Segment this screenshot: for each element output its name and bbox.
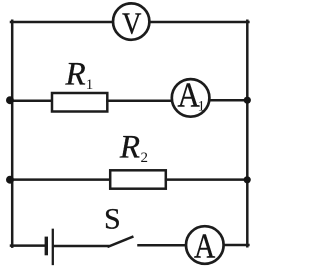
svg-text:R: R: [65, 57, 86, 93]
svg-text:1: 1: [86, 77, 94, 93]
svg-text:R: R: [119, 130, 140, 166]
svg-text:V: V: [122, 7, 141, 41]
svg-text:A: A: [177, 77, 199, 115]
svg-text:2: 2: [141, 150, 149, 166]
svg-text:1: 1: [198, 99, 205, 115]
svg-text:S: S: [104, 203, 121, 236]
svg-text:A: A: [194, 226, 216, 265]
